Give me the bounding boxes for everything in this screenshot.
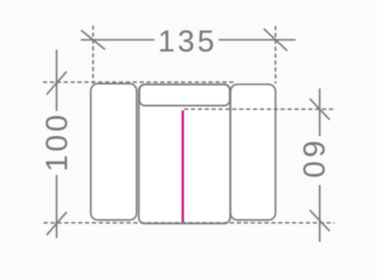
dimension line 60 bottom segment	[319, 185, 321, 242]
dimension line 135 left segment	[81, 39, 155, 41]
tick 60 bottom	[310, 210, 330, 231]
tick 100 bottom	[47, 212, 67, 235]
magenta seam line	[182, 110, 185, 222]
sofa backrest	[139, 85, 229, 106]
dimension line 100 top segment	[56, 50, 58, 111]
sofa seat module	[139, 85, 230, 224]
tick 135 left	[81, 30, 105, 49]
extension line dashed vertical right (135 dim)	[275, 26, 277, 84]
left armrest	[91, 84, 137, 220]
svg-text:100: 100	[40, 112, 74, 172]
extension line dashed vertical left (135 dim)	[92, 26, 94, 84]
svg-text:60: 60	[297, 141, 331, 182]
extension line dashed horizontal top (100 dim)	[43, 81, 234, 83]
tick 135 right	[264, 29, 287, 51]
right armrest	[231, 84, 276, 220]
tick 60 top	[310, 99, 330, 120]
dimension line 100 bottom segment	[56, 175, 58, 238]
tick 100 top	[47, 72, 67, 95]
extension line dashed horizontal bottom (100 + 60 dims)	[44, 222, 335, 224]
dimension line 135 right segment	[219, 39, 296, 41]
dimension line 60 top segment	[319, 89, 321, 137]
svg-text:135: 135	[158, 25, 217, 59]
extension line dashed horizontal seat back (60 dim)	[184, 108, 334, 110]
